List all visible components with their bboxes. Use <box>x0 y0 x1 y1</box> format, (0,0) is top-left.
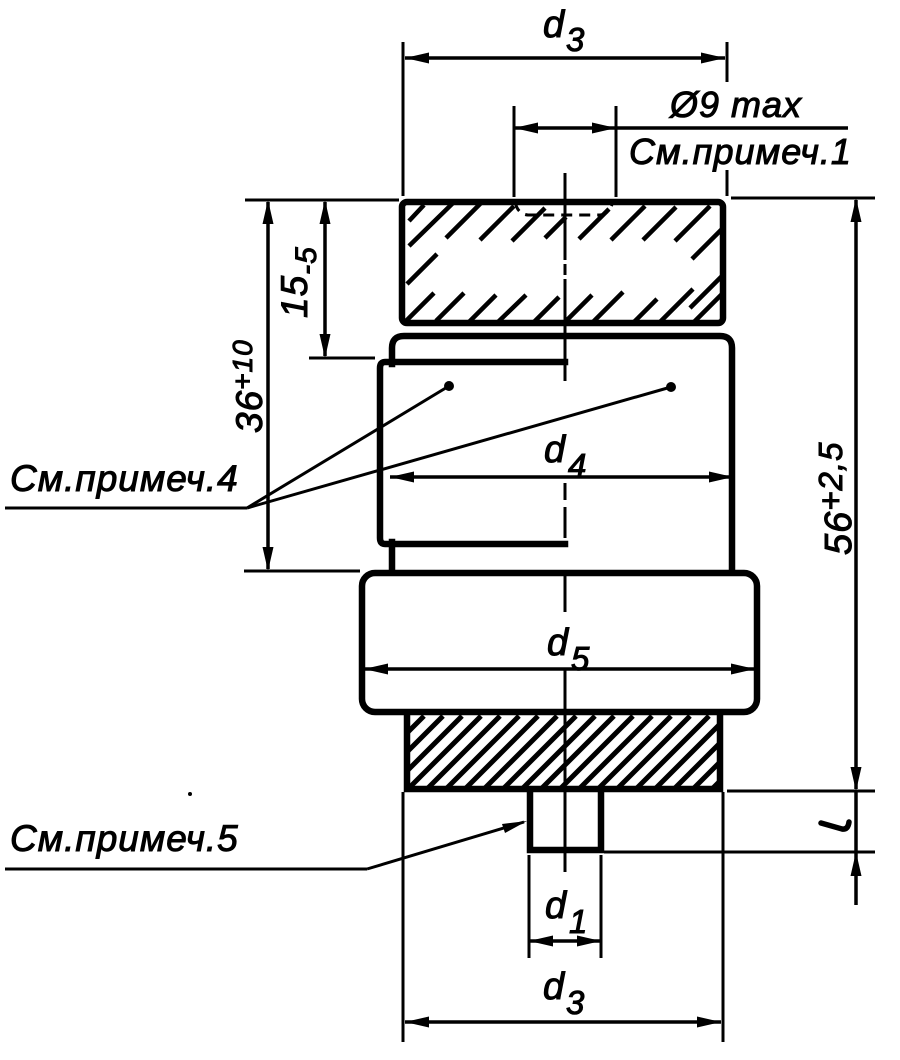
top block hatching (sketchy) <box>406 203 724 322</box>
dimension d5 <box>364 622 755 677</box>
dimension d4 <box>390 429 733 484</box>
svg-text:d: d <box>543 966 566 1008</box>
dimension Ø9 max with leader note 1 <box>514 84 852 197</box>
svg-text:Ø9 max: Ø9 max <box>669 84 803 125</box>
dimension d3 (bottom) <box>403 792 723 1042</box>
dimension 15-5 (left) <box>245 200 399 358</box>
dimension l (right, stem length) <box>604 791 875 905</box>
stray dot <box>188 792 192 796</box>
svg-text:d: d <box>544 429 567 471</box>
svg-text:См.примеч.1: См.примеч.1 <box>629 131 852 172</box>
svg-text:5: 5 <box>571 640 590 677</box>
bottom block hatching <box>407 716 720 788</box>
svg-text:d: d <box>543 4 566 46</box>
svg-text:d: d <box>545 885 568 927</box>
dimension d1 (bottom stem) <box>529 855 601 958</box>
svg-text:d: d <box>547 622 570 664</box>
svg-text:См.примеч.5: См.примеч.5 <box>10 818 239 859</box>
centerline (vertical axis) <box>564 173 567 872</box>
flange d5 <box>362 573 757 712</box>
hidden recess (dashed) at top of block <box>515 201 613 215</box>
main body cylinder d4 (full width band) <box>392 336 732 570</box>
svg-text:См.примеч.4: См.примеч.4 <box>10 458 239 499</box>
svg-text:3: 3 <box>566 21 585 58</box>
leader note 5 (arrow to stem) <box>5 818 527 869</box>
svg-text:4: 4 <box>568 447 587 484</box>
bottom hatched block <box>407 713 720 789</box>
leader note 4 (two leaders with dots) <box>5 381 676 508</box>
left half larger section (coated surface) <box>380 362 565 544</box>
svg-text:3: 3 <box>566 984 585 1021</box>
stem (bottom lead) <box>530 791 601 850</box>
top ceramic block (hatched) <box>402 202 723 323</box>
dimension 56+2,5 (right) <box>727 198 875 791</box>
svg-text:1: 1 <box>569 903 588 940</box>
dimension d3 (top) <box>403 4 727 196</box>
dimension 36+10 (left) <box>227 200 360 571</box>
